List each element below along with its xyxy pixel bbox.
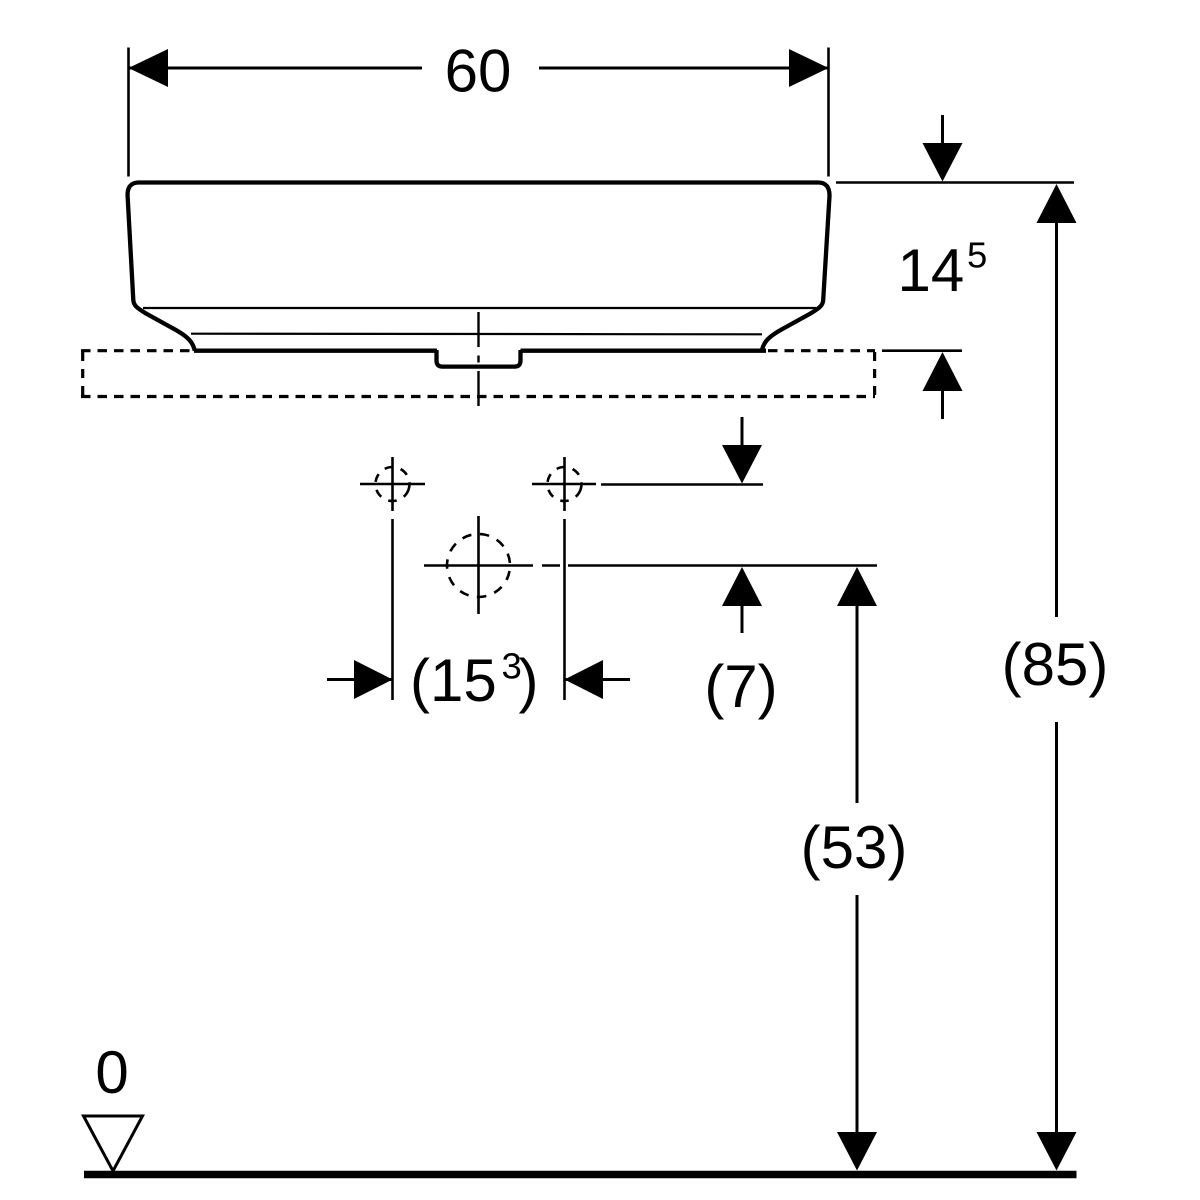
dim 85: lower line + bottom arrow [1055, 722, 1058, 1133]
svg-text:0: 0 [95, 1039, 128, 1106]
arrow down to y=484 line [741, 417, 744, 446]
dim 60: left extension line [127, 48, 130, 177]
drain centerline [477, 312, 479, 347]
faucet hole A (dashed circle) [371, 462, 415, 506]
basin interior line 1 [143, 307, 816, 309]
crosshair B [532, 483, 596, 486]
dashed countertop box: right edge [873, 352, 876, 397]
dim 60: right dimension line segment [539, 67, 828, 70]
arrow down to basin top [941, 115, 944, 144]
dim (15^3): left arrow [327, 678, 392, 681]
ref line bottom of basin (right) [882, 349, 962, 352]
ref line faucet level y=484 [601, 483, 763, 486]
floor line [84, 1171, 1077, 1179]
faucet hole B (dashed circle) [543, 462, 587, 506]
arrow up to basin bottom [923, 352, 963, 391]
svg-text:5: 5 [967, 235, 987, 276]
svg-text:): ) [519, 647, 539, 714]
datum triangle [84, 1116, 143, 1171]
dim (15^3): right extension line [563, 519, 566, 700]
drain flange [437, 350, 521, 367]
dim 60: left arrowhead [129, 49, 169, 87]
ref line spout level y=565 [542, 564, 560, 567]
crosshair A [360, 483, 425, 486]
svg-text:(85): (85) [1002, 631, 1109, 698]
basin interior line 2 [191, 333, 762, 336]
ref line top of basin (right) [836, 181, 1074, 184]
dashed countertop box: left edge [81, 352, 84, 397]
svg-text:(53): (53) [801, 814, 908, 881]
dim 60: right arrowhead [789, 49, 829, 87]
dim (15^3): left extension line [391, 519, 394, 700]
svg-text:60: 60 [445, 38, 512, 105]
svg-text:14: 14 [898, 237, 965, 304]
dim 60: left dimension line segment [129, 67, 422, 70]
dim 60: right extension line [827, 48, 830, 177]
arrow up to y=565 line (7) [722, 567, 762, 606]
dashed countertop box: top-left segment [81, 349, 192, 352]
basin outline [128, 183, 830, 351]
dashed countertop box: bottom edge [81, 395, 875, 398]
basin bottom edge right of drain [521, 349, 767, 353]
dim 53: lower line + bottom arrow [856, 895, 859, 1133]
large hole (dashed circle) [442, 529, 515, 602]
dashed countertop box: top-right segment [768, 349, 875, 352]
svg-text:(7): (7) [704, 653, 777, 720]
svg-text:(15: (15 [410, 647, 497, 714]
dim (15^3): right arrow [565, 678, 630, 681]
dim 85: top arrow [1037, 184, 1077, 223]
crosshair large [424, 564, 533, 567]
dim 53: top arrow [837, 567, 877, 606]
basin bottom edge left of drain [194, 349, 437, 353]
